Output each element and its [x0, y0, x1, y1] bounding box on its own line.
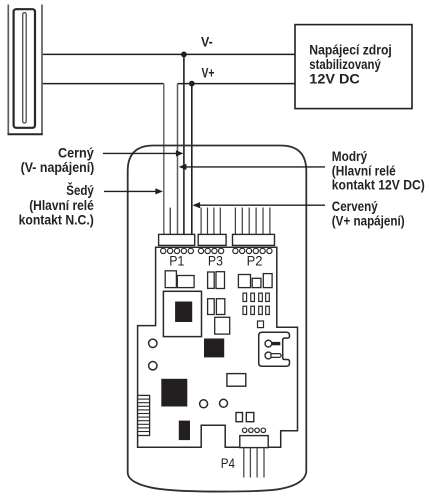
arrow Cerný to black wire: [103, 152, 177, 154]
edge connector ladder: [138, 395, 150, 435]
P3 pin holes: [198, 248, 223, 253]
svg-text:(V- napájení): (V- napájení): [21, 160, 95, 175]
node junction V+: [189, 81, 195, 87]
component rect under P2 b: [252, 278, 261, 287]
small square bottom a: [236, 413, 243, 422]
IC big black square left: [161, 379, 187, 407]
wire V- horizontal from lock to power supply: [43, 53, 295, 55]
single pad: [258, 321, 264, 328]
electric lock inner plate: [14, 9, 35, 128]
IC black square center: [204, 339, 224, 358]
wire lock lower contact horizontal: [43, 83, 164, 85]
jack J1 body: [259, 332, 290, 366]
svg-text:12V DC: 12V DC: [309, 72, 360, 87]
svg-text:Šedý: Šedý: [66, 183, 94, 198]
svg-text:V-: V-: [201, 34, 213, 50]
component rect under P2 a: [238, 275, 250, 288]
relay black body: [175, 302, 192, 323]
component rect under P1 right: [177, 276, 194, 288]
electric lock device outer housing: [8, 5, 43, 135]
svg-text:V+: V+: [202, 66, 215, 82]
connector P4 box: [240, 436, 268, 448]
arrow Cervený to red wire: [200, 204, 325, 206]
svg-text:stabilizovaný: stabilizovaný: [309, 57, 381, 72]
node junction V-: [181, 52, 187, 58]
svg-text:P1: P1: [169, 253, 184, 268]
electric lock center slot: [23, 13, 27, 124]
svg-text:Napájecí zdroj: Napájecí zdroj: [309, 42, 392, 57]
svg-text:(Hlavní relé: (Hlavní relé: [29, 198, 94, 213]
svg-text:kontakt N.C.): kontakt N.C.): [19, 213, 94, 228]
svg-text:P4: P4: [221, 456, 236, 471]
mounting hole left top: [149, 339, 157, 347]
connector P1 box: [159, 234, 195, 245]
connector P3 box: [198, 234, 226, 245]
svg-text:kontakt 12V DC): kontakt 12V DC): [332, 178, 425, 193]
svg-text:P3: P3: [208, 253, 223, 268]
wire red V+ vertical: [191, 84, 193, 235]
DIP pads row1: [243, 293, 269, 301]
wire bundle into P3: [201, 208, 220, 235]
svg-text:(Hlavní relé: (Hlavní relé: [332, 163, 396, 178]
component rect under P3 row2 left: [208, 299, 215, 315]
component rect under P1 left: [165, 271, 176, 288]
wire stub into P1 pin2: [169, 208, 171, 235]
svg-text:Cerný: Cerný: [58, 145, 94, 160]
small square bottom b: [246, 413, 254, 422]
wire V+ horizontal to power supply: [178, 83, 296, 85]
svg-text:P2: P2: [247, 253, 263, 268]
component rect under P2 c: [263, 274, 272, 288]
P2 pin holes: [233, 248, 272, 253]
wire black V- vertical: [183, 54, 185, 234]
arrow Modrý to blue wire: [186, 166, 325, 168]
power supply box: [295, 25, 412, 109]
component white square center: [215, 317, 230, 334]
unit outline rounded enclosure: [128, 146, 307, 492]
P1 pin holes: [161, 248, 194, 253]
relay box U1: [163, 291, 201, 336]
P4 pin holes: [242, 428, 265, 433]
jack pin 2: [265, 352, 272, 359]
component rect under P3 row2 right: [216, 299, 224, 315]
component rect under P3 row1 right: [216, 272, 225, 289]
component white rect mid low: [227, 374, 246, 387]
wire blue (relay 12V DC) vertical: [177, 84, 179, 235]
component black rect bottom: [179, 421, 190, 441]
wire grey (relay N.C.) vertical: [163, 84, 165, 235]
hole mid low right: [220, 399, 228, 407]
PCB outline: [138, 247, 298, 447]
wire bundle into P2: [235, 208, 270, 235]
arrow Šedý to grey wire: [104, 190, 156, 192]
P4 wires: [244, 448, 264, 478]
DIP pads row2: [243, 306, 269, 314]
hole mid low left: [200, 400, 208, 408]
mounting hole left bottom: [149, 362, 157, 370]
component rect under P3 row1 left: [208, 272, 215, 288]
svg-text:Cervený: Cervený: [332, 199, 378, 214]
svg-text:Modrý: Modrý: [332, 149, 368, 164]
jack pin 1: [265, 340, 272, 347]
svg-text:(V+ napájení): (V+ napájení): [332, 214, 405, 229]
connector P2 box: [233, 234, 275, 245]
